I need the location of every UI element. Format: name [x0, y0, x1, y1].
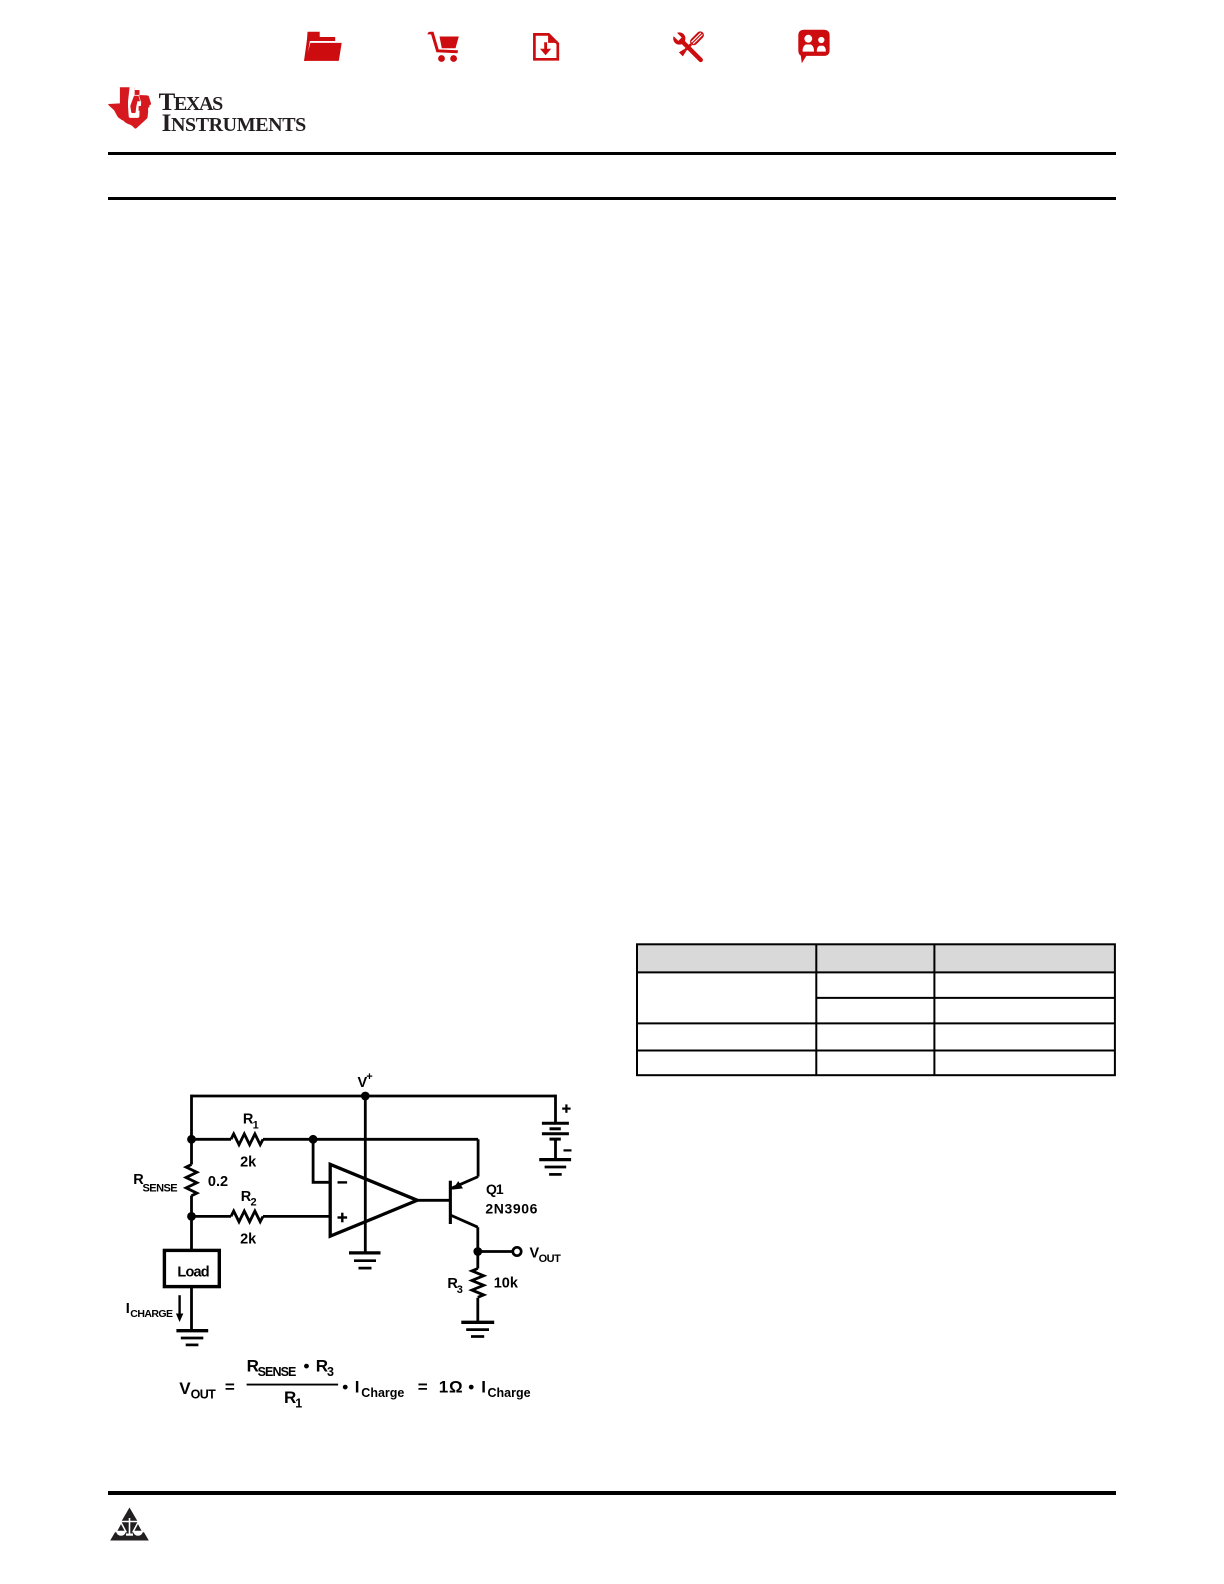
svg-text:1: 1 — [439, 1378, 448, 1397]
svg-text:+: + — [366, 1071, 372, 1083]
footer rule — [108, 1491, 1116, 1495]
node A dot (RSENSE top / R1) — [187, 1135, 196, 1144]
battery B1 — [542, 1123, 569, 1139]
svg-text:3: 3 — [327, 1365, 334, 1379]
wire left drop from rail to node A — [190, 1095, 193, 1140]
header icon row — [0, 0, 1224, 75]
wire R1 right lead to emitter corner — [263, 1138, 478, 1141]
svg-text:Charge: Charge — [361, 1386, 404, 1400]
resistor R2 — [231, 1211, 263, 1222]
support community icon — [798, 30, 829, 63]
svg-text:=: = — [225, 1378, 235, 1397]
svg-text:0.2: 0.2 — [208, 1174, 228, 1190]
battery minus label — [564, 1149, 572, 1151]
wire R3 bottom lead — [476, 1298, 479, 1323]
wire battery mid — [554, 1139, 557, 1160]
op-amp U1 — [330, 1164, 417, 1236]
node B dot (RSENSE bottom / R2) — [187, 1212, 196, 1221]
svg-text:I: I — [126, 1301, 130, 1317]
wire RSENSE top lead — [190, 1139, 193, 1164]
svg-text:1: 1 — [253, 1119, 259, 1131]
wire node C to VOUT terminal — [478, 1250, 512, 1253]
svg-text:2k: 2k — [240, 1232, 257, 1248]
svg-text:SENSE: SENSE — [258, 1365, 296, 1379]
resistor R3 — [472, 1269, 484, 1298]
cart icon — [428, 32, 459, 62]
svg-text:3: 3 — [457, 1284, 463, 1296]
TEXAS INSTRUMENTS wordmark — [158, 0, 160, 1]
wire collector vertical to node C — [476, 1227, 479, 1251]
tools icon — [669, 28, 707, 66]
svg-text:OUT: OUT — [539, 1253, 562, 1265]
ground below R3 — [461, 1322, 494, 1336]
VOUT terminal circle — [513, 1247, 521, 1255]
wire R2 left lead — [192, 1215, 232, 1218]
svg-text:•: • — [304, 1357, 310, 1376]
transistor Q1 — [449, 1177, 478, 1228]
node C dot (collector / R3 / VOUT) — [473, 1247, 482, 1256]
svg-text:Load: Load — [177, 1264, 208, 1280]
battery plus label — [562, 1104, 570, 1112]
ground below battery — [539, 1160, 571, 1175]
wire R1 left lead — [192, 1138, 232, 1141]
svg-text:10k: 10k — [494, 1276, 519, 1292]
svg-text:•: • — [468, 1378, 474, 1397]
op-amp plus pin — [338, 1213, 348, 1223]
wire op-amp output to Q1 base — [417, 1199, 449, 1202]
TI logo bug — [108, 87, 151, 129]
wire op-amp supply vertical through triangle — [364, 1096, 367, 1253]
svg-text:2: 2 — [251, 1197, 257, 1209]
svg-text:1: 1 — [295, 1396, 302, 1410]
wire RSENSE bottom lead — [190, 1196, 193, 1217]
wire node B to load box — [190, 1216, 193, 1250]
load box — [164, 1250, 219, 1286]
ordering table — [630, 938, 1122, 1082]
wire R3 top lead — [476, 1252, 479, 1269]
op-amp minus pin — [338, 1181, 348, 1183]
ground below load — [176, 1331, 208, 1345]
svg-text:•: • — [342, 1378, 348, 1397]
circuit schematic — [100, 1060, 640, 1420]
resistor R1 — [231, 1134, 263, 1145]
wire R2 right lead to op-amp — [263, 1215, 330, 1218]
svg-text:2k: 2k — [240, 1155, 257, 1171]
svg-text:I: I — [481, 1378, 486, 1397]
svg-text:Charge: Charge — [488, 1386, 531, 1400]
svg-text:=: = — [418, 1378, 428, 1397]
formula VOUT equation — [179, 1357, 530, 1411]
wire load box to ground — [190, 1287, 193, 1331]
svg-text:2N3906: 2N3906 — [485, 1200, 538, 1216]
svg-text:OUT: OUT — [191, 1387, 217, 1401]
node D dot (R1 right / inverting input) — [309, 1135, 318, 1144]
header rule 2 — [108, 197, 1116, 200]
footer legal scales icon — [110, 1507, 150, 1542]
wire inverting input step — [313, 1139, 330, 1182]
resistor RSENSE — [186, 1165, 197, 1196]
svg-text:I: I — [355, 1378, 360, 1397]
header rule 1 — [108, 152, 1116, 155]
wire battery top drop — [554, 1095, 557, 1124]
ground below op-amp — [349, 1253, 381, 1268]
svg-text:CHARGE: CHARGE — [130, 1308, 173, 1320]
svg-text:Q1: Q1 — [486, 1181, 504, 1197]
wire emitter vertical — [477, 1139, 480, 1176]
svg-text:Ω: Ω — [449, 1378, 463, 1397]
ICHARGE arrow — [176, 1295, 183, 1322]
svg-text:SENSE: SENSE — [143, 1183, 178, 1195]
node V+ dot — [361, 1092, 370, 1101]
document download icon — [534, 34, 557, 59]
folder icon — [304, 32, 342, 61]
svg-text:V: V — [179, 1379, 191, 1398]
wire V+ top rail — [192, 1095, 556, 1098]
